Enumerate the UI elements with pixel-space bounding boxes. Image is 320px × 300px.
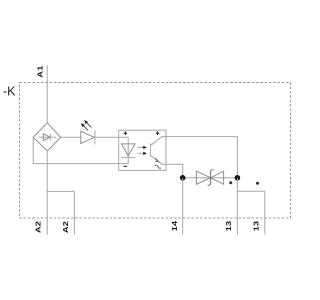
svg-text:A2: A2 [34, 221, 43, 233]
optocoupler U1 box [119, 130, 166, 170]
wire terminal 13 drop [236, 178, 238, 235]
LED emission arrow 1 [84, 120, 91, 127]
svg-text:A2: A2 [61, 221, 70, 233]
wire A2 vertical (bridge bottom to terminal) [46, 151, 48, 235]
wire collector to node 13 [162, 137, 238, 178]
wire LED return (opto to bridge minus) [33, 163, 129, 165]
bridge internal diode [39, 134, 56, 141]
svg-text:13: 13 [224, 221, 233, 232]
svg-text:14: 14 [170, 221, 179, 232]
svg-text:-K: -K [3, 85, 16, 99]
wire A1 (vertical feed to bridge) [46, 66, 48, 123]
pulse squiggle (opto bottom-right) [155, 165, 161, 168]
optocoupler light arrow 2 [138, 152, 147, 155]
wire A2 jumper [47, 190, 74, 192]
polarity mark + (opto top-left) [124, 131, 128, 135]
optocoupler internal LED [121, 137, 135, 163]
LED emission arrow 2 [81, 123, 88, 130]
optocoupler phototransistor Q1 [150, 137, 162, 165]
wire bridge(+) to LED anode [61, 136, 81, 138]
wire TVS bus [183, 177, 238, 179]
asterisk mark (second 13) [256, 182, 259, 185]
wire 13 jumper [237, 190, 264, 192]
asterisk mark (node 13) [229, 181, 232, 184]
wire bridge(-) drop [32, 137, 34, 163]
wire A2 second terminal drop [73, 191, 75, 234]
wire emitter to node 14 [162, 164, 183, 178]
optocoupler light arrow 1 [138, 146, 147, 149]
wire LED cathode to optocoupler input [95, 136, 128, 138]
bridge rectifier diamond [33, 123, 61, 151]
junction node 13 [235, 175, 241, 181]
polarity mark + (opto top-right) [156, 131, 160, 135]
svg-text:A1: A1 [36, 65, 45, 77]
svg-text:13: 13 [252, 221, 261, 232]
wire second 13 terminal drop [264, 191, 266, 234]
indicator LED V2 [81, 130, 95, 144]
TVS suppressor diode V3 [196, 170, 223, 186]
junction node 14 [180, 175, 186, 181]
polarity mark - (opto bottom-left) [123, 165, 127, 167]
wire terminal 14 drop [182, 178, 184, 235]
module outline -K (dashed boundary) [20, 83, 291, 219]
